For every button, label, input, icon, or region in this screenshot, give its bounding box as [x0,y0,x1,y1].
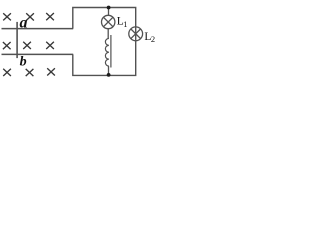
svg-text:2: 2 [151,34,155,44]
svg-text:a: a [20,15,28,32]
svg-text:1: 1 [123,19,127,29]
svg-text:b: b [20,54,27,69]
